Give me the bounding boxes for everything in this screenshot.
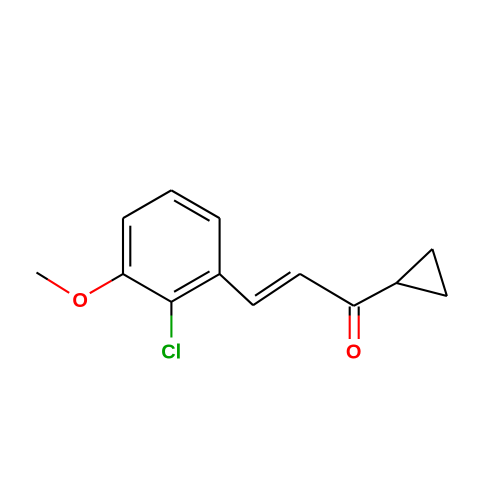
wire v1-v2 C=C second line [255,272,290,296]
carbonyl C=O left line red half [349,316,351,340]
svg-text:O: O [72,290,88,312]
wire CH3-O red half [48,280,69,293]
wire v1-v2 C=C main [253,274,300,305]
edge LR-UR [219,218,221,274]
wire C-Cl green half [170,316,172,338]
aromatic inner line left [129,226,131,267]
carbonyl C=O right line black half [358,307,360,316]
carbonyl C=O left line black half [349,307,351,316]
edge LL-B [123,274,171,302]
cyclopropane edge A-B2 [396,283,447,296]
edge UR-T [171,190,219,218]
wire ring-v1 [220,274,254,305]
wire carbonyl-cyclopropyl [354,283,397,306]
wire O-ring red half [90,281,112,294]
cyclopropane edge C2-A [396,249,432,283]
wire C-Cl black half [170,302,172,316]
aromatic inner line top-right [174,200,209,220]
aromatic inner line bottom-right [174,271,209,291]
carbonyl C=O right line red half [358,316,360,340]
cyclopropane edge B2-C2 [432,249,447,296]
edge B-LR [171,274,219,302]
svg-text:Cl: Cl [161,341,181,363]
benzene ring outline [123,190,220,302]
wire CH3-O black half [37,273,48,280]
svg-text:O: O [346,342,362,364]
wire v2-carbonyl [300,274,354,306]
edge UL-LL [122,218,124,274]
edge T-UL [123,190,171,218]
wire O-ring black half [112,274,123,281]
